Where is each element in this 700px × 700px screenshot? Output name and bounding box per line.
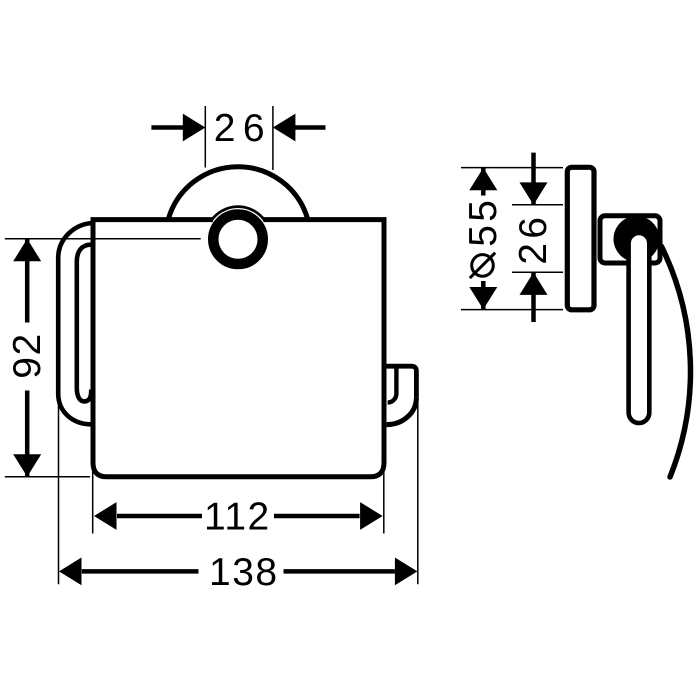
dimension 138: right extension line: [417, 398, 419, 584]
dimension 26 side: bottom extension line: [512, 271, 563, 273]
dimension 112: right arrowhead: [360, 502, 383, 530]
svg-text:26: 26: [512, 213, 555, 265]
dimension 26 side: top tail line: [531, 153, 536, 205]
dimension 26 top: left arrowhead: [183, 114, 206, 142]
svg-text:138: 138: [209, 551, 279, 594]
dimension D55: diameter symbol slash: [470, 253, 495, 278]
front view: right paper-guide tab top and right edge: [386, 366, 416, 397]
front view: spindle cap ring: [213, 215, 263, 264]
side view: wall plate: [567, 167, 594, 309]
dimension D55: lower line segment: [481, 281, 486, 309]
front view: left roll-bar hook inner edge: [77, 245, 92, 402]
svg-text:2: 2: [214, 107, 236, 150]
svg-text:55: 55: [462, 197, 505, 247]
dimension D55: top arrowhead: [469, 168, 497, 191]
side view: bar mount body: [600, 216, 660, 263]
dimension 26 side: bottom arrowhead: [520, 272, 548, 295]
dimension 138: right tail line: [284, 569, 395, 574]
dimension 138: right arrowhead: [395, 558, 418, 586]
dimension 112: left extension line: [92, 462, 94, 534]
dimension 26 top: right tail line: [295, 125, 326, 130]
front view: paper roll arc: [168, 167, 308, 220]
front view: spindle rim bump arc: [211, 207, 265, 221]
dimension D55: top extension line: [461, 167, 563, 169]
svg-text:112: 112: [204, 495, 271, 538]
dimension 92: top arrowhead: [13, 239, 41, 261]
dimension 112: right tail line: [274, 514, 360, 519]
front view: left roll-bar hook outer edge: [58, 223, 92, 424]
front view: cover plate outline: [93, 220, 384, 477]
dimension 138: left tail line: [82, 569, 199, 574]
dimension 92: lower line segment: [25, 391, 30, 477]
svg-text:92: 92: [6, 332, 49, 378]
dimension 26 top: left tail line: [151, 125, 183, 130]
dimension 92: bottom arrowhead: [13, 454, 41, 477]
dimension 112: left arrowhead: [94, 502, 117, 530]
dimension 26 side: bottom tail line: [531, 272, 536, 322]
dimension 26 top: left extension line: [204, 106, 206, 168]
dimension 26 side: top arrowhead: [520, 182, 548, 205]
svg-text:6: 6: [243, 107, 265, 150]
dimension 92: upper line segment: [25, 239, 30, 323]
dimension D55: bottom arrowhead: [469, 287, 497, 309]
dimension 26 side: top extension line: [512, 204, 563, 206]
dimension 26 top: right extension line: [272, 106, 274, 170]
dimension D55: upper line segment: [481, 168, 486, 196]
dimension 26 top: right arrowhead: [273, 114, 296, 142]
side view: pivot disc: [614, 216, 660, 262]
dimension 138: left arrowhead: [59, 558, 82, 586]
dimension D55: diameter symbol circle: [472, 255, 494, 277]
dimension D55: bottom extension line: [461, 309, 563, 311]
front view: right paper-guide tab inner edge: [388, 369, 397, 403]
dimension 92: top extension line: [5, 238, 201, 240]
side view: curved cover profile: [662, 247, 691, 478]
dimension 112: left tail line: [117, 514, 202, 519]
front view: right paper-guide tab bottom curve: [387, 398, 417, 425]
dimension 112: right extension line: [383, 455, 385, 534]
dimension 138: left extension line: [58, 400, 60, 584]
side view: roll bar: [629, 233, 650, 423]
dimension 92: bottom extension line: [5, 476, 90, 478]
